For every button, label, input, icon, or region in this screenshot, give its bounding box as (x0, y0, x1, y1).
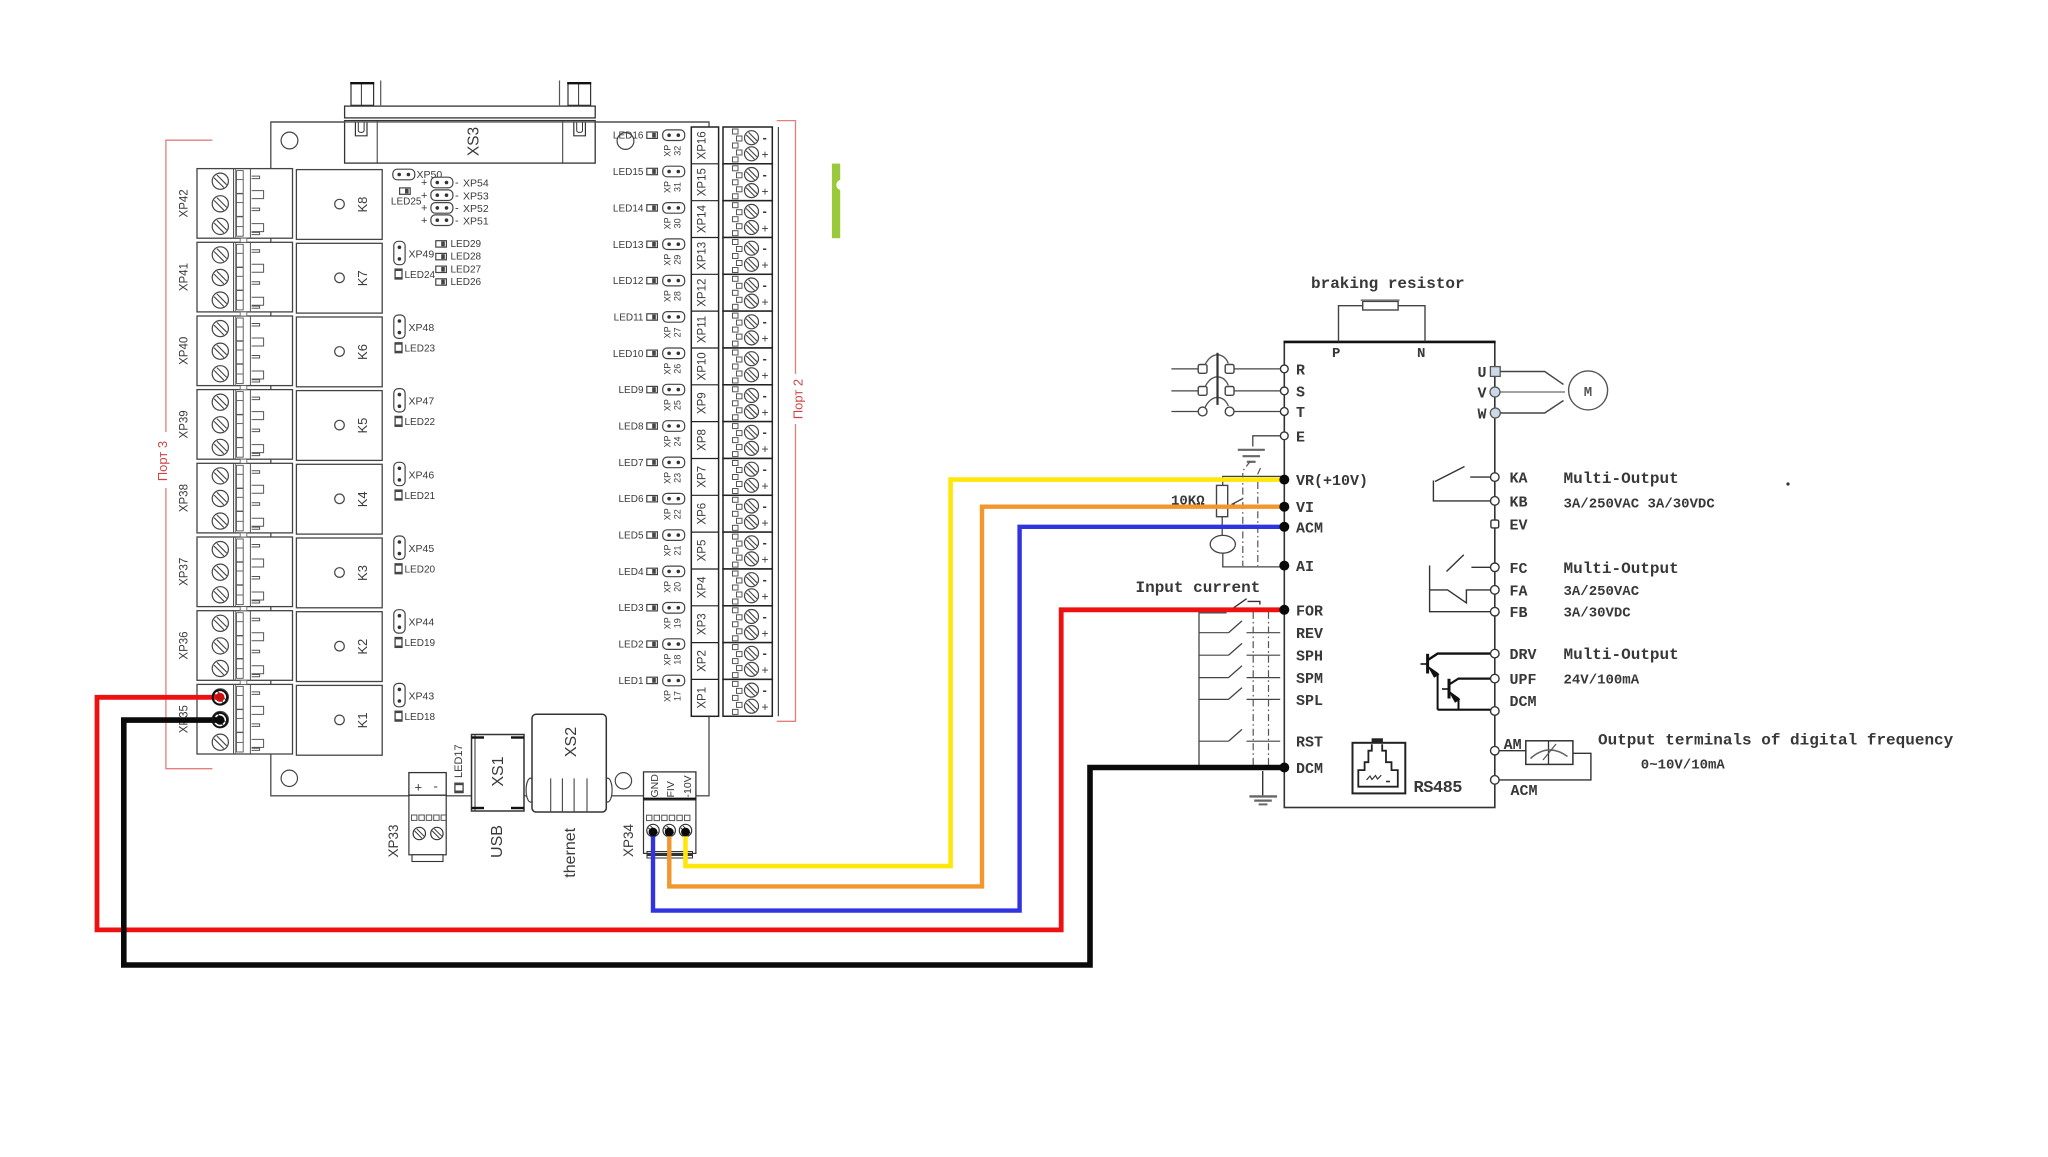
svg-text:N: N (1417, 346, 1425, 362)
terminal FB right (1491, 607, 1500, 616)
svg-text:27: 27 (673, 327, 683, 337)
svg-text:+: + (421, 203, 427, 215)
jumper XP51 (421, 215, 489, 228)
LED1 (618, 676, 657, 687)
svg-text:XP51: XP51 (463, 215, 489, 227)
svg-text:K1: K1 (355, 712, 370, 728)
comb bridge (240, 238, 247, 242)
svg-text:31: 31 (673, 182, 683, 192)
svg-text:XP: XP (663, 472, 673, 484)
svg-text:17: 17 (673, 691, 683, 701)
svg-text:XP45: XP45 (409, 543, 435, 555)
LED18 (395, 711, 435, 723)
svg-text:XP: XP (663, 581, 673, 593)
node FOR (1279, 605, 1289, 615)
terminal E (1280, 429, 1305, 446)
jumper XP53 (421, 190, 489, 203)
LED21 (395, 490, 435, 502)
svg-text:XP: XP (663, 290, 673, 302)
terminal V (1477, 386, 1500, 403)
svg-text:LED2: LED2 (618, 640, 643, 651)
svg-text:LED1: LED1 (618, 676, 643, 687)
mounting hole top-right (617, 133, 634, 150)
terminal DRV right (1491, 649, 1500, 658)
transistor output DRV (1421, 654, 1491, 710)
svg-text:18: 18 (673, 655, 683, 665)
terminal block XP37 (179, 537, 293, 607)
jumper XP30 (663, 203, 685, 230)
LED24 (395, 269, 435, 281)
svg-text:0~10V/10mA: 0~10V/10mA (1641, 758, 1726, 774)
svg-text:25: 25 (673, 400, 683, 410)
svg-text:-: - (455, 203, 459, 215)
svg-text:20: 20 (673, 582, 683, 592)
jumper XP18 (663, 639, 685, 666)
svg-text:RS485: RS485 (1414, 779, 1463, 798)
svg-text:DCM: DCM (1510, 694, 1537, 711)
svg-text:LED10: LED10 (613, 349, 644, 360)
switch SPL (1199, 688, 1280, 700)
output terminal block row XP1 (723, 679, 772, 716)
svg-text:XP39: XP39 (179, 410, 191, 438)
svg-text:DCM: DCM (1296, 761, 1323, 778)
LED16 (613, 131, 657, 142)
svg-text:LED16: LED16 (613, 131, 644, 142)
node AI (1279, 561, 1289, 571)
output terminal block row XP16 (723, 127, 772, 164)
terminal block XP36 (179, 611, 293, 681)
svg-text:XP47: XP47 (409, 396, 435, 408)
svg-text:22: 22 (673, 509, 683, 519)
svg-text:FC: FC (1510, 561, 1528, 578)
svg-text:M: M (1584, 385, 1592, 401)
jumper XP27 (663, 312, 685, 339)
svg-text:XP8: XP8 (697, 429, 709, 451)
terminal FC right (1491, 563, 1500, 572)
svg-text:KB: KB (1510, 494, 1528, 511)
jumper XP19 (663, 603, 685, 630)
connector XS2 Ethernet (526, 714, 612, 877)
LED20 (395, 564, 435, 576)
svg-text:XP1: XP1 (697, 687, 709, 709)
svg-text:+: + (415, 780, 423, 795)
svg-text:XP2: XP2 (697, 650, 709, 672)
braking resistor (1311, 275, 1465, 362)
comb bridge (240, 607, 247, 611)
LED28 (436, 252, 482, 263)
svg-text:XP48: XP48 (409, 322, 435, 334)
svg-text:DRV: DRV (1510, 647, 1537, 664)
svg-text:XP11: XP11 (697, 316, 709, 343)
svg-text:LED24: LED24 (405, 270, 436, 281)
terminal S (1280, 384, 1305, 401)
svg-text:USB: USB (489, 825, 506, 858)
svg-text:LED11: LED11 (614, 312, 644, 323)
XP16..XP1 connector label column (691, 127, 718, 716)
svg-text:XP10: XP10 (697, 352, 709, 380)
svg-text:3A/250VAC: 3A/250VAC (1564, 584, 1640, 600)
svg-text:XP41: XP41 (179, 263, 191, 291)
output terminal block row XP2 (723, 643, 772, 680)
wire orange FIV to VI (669, 507, 1281, 887)
output terminal block row XP3 (723, 606, 772, 643)
shield dash lines lower (1253, 612, 1268, 770)
svg-text:XP12: XP12 (697, 279, 709, 307)
LED27 (436, 264, 482, 275)
svg-text:XP16: XP16 (697, 131, 709, 159)
LED5 (618, 531, 657, 542)
svg-text:Порт 3: Порт 3 (155, 441, 170, 481)
relay contact FC/FA/FB (1430, 555, 1490, 612)
connector XS3 (345, 81, 596, 164)
svg-text:Порт 2: Порт 2 (791, 379, 806, 419)
svg-text:30: 30 (673, 218, 683, 228)
svg-text:XP53: XP53 (463, 190, 489, 202)
LED13 (613, 240, 657, 251)
node VR (1279, 475, 1289, 485)
svg-text:SPM: SPM (1296, 671, 1323, 688)
switch SPH (1199, 643, 1280, 655)
svg-text:Output terminals of digital fr: Output terminals of digital frequency (1598, 732, 1954, 750)
svg-text:29: 29 (673, 255, 683, 265)
terminal T (1280, 405, 1305, 422)
svg-text:XP49: XP49 (409, 248, 435, 260)
terminal U (1477, 365, 1500, 382)
wire black XP35 to DCM (124, 720, 1281, 965)
svg-text:XP: XP (663, 617, 673, 629)
svg-text:FA: FA (1510, 583, 1528, 600)
svg-text:XP5: XP5 (697, 540, 709, 562)
svg-text:LED19: LED19 (405, 638, 436, 649)
svg-text:K8: K8 (355, 197, 370, 213)
svg-text:VR(+10V): VR(+10V) (1296, 473, 1368, 490)
svg-text:LED14: LED14 (613, 203, 644, 214)
svg-text:LED23: LED23 (405, 344, 436, 355)
junction black at XP35 (213, 713, 227, 727)
LED7 (618, 458, 657, 469)
jumper XP29 (663, 239, 685, 266)
svg-text:LED20: LED20 (405, 565, 436, 576)
VFD main box (1284, 342, 1495, 808)
relay K1 (296, 685, 382, 755)
svg-text:XP33: XP33 (386, 824, 401, 857)
node ACM (1279, 522, 1289, 532)
jumper XP17 (663, 675, 685, 702)
svg-text:XS2: XS2 (563, 727, 580, 757)
svg-text:XS3: XS3 (466, 127, 483, 156)
output terminal block row XP14 (723, 201, 772, 238)
svg-text:LED26: LED26 (451, 277, 482, 288)
svg-text:RST: RST (1296, 735, 1323, 752)
terminal EV right (1491, 520, 1499, 528)
terminal DCM right (1491, 707, 1500, 716)
jumper XP48 (394, 315, 435, 338)
svg-text:ACM: ACM (1511, 783, 1538, 800)
svg-text:XP42: XP42 (179, 189, 191, 217)
junction red at XP35 (213, 690, 227, 704)
svg-text:V: V (1477, 386, 1486, 403)
LED10 (613, 349, 657, 360)
terminal XP33 (386, 773, 447, 862)
LED15 (613, 167, 657, 178)
wire blue GND to ACM (653, 527, 1281, 911)
switch bus (1199, 613, 1227, 768)
terminal block XP41 (179, 242, 293, 312)
svg-text:24: 24 (673, 436, 683, 446)
LED25 (391, 188, 422, 208)
svg-text:XP: XP (663, 363, 673, 375)
svg-text:XP: XP (663, 145, 673, 157)
svg-text:LED3: LED3 (618, 603, 643, 614)
terminal W (1477, 407, 1500, 424)
svg-text:XP36: XP36 (179, 631, 191, 659)
svg-text:E: E (1296, 429, 1305, 446)
svg-text:+: + (421, 177, 427, 189)
terminal KB right (1491, 497, 1500, 506)
motor M (1500, 371, 1607, 413)
jumper XP26 (663, 348, 685, 375)
jumper XP54 (421, 177, 489, 190)
svg-text:XP: XP (663, 654, 673, 666)
terminal block XP39 (179, 390, 293, 460)
svg-text:26: 26 (673, 364, 683, 374)
terminal AM right (1491, 746, 1500, 755)
jumper XP46 (394, 462, 435, 485)
svg-text:P: P (1332, 346, 1340, 362)
svg-text:XP43: XP43 (409, 690, 435, 702)
relay K3 (296, 538, 382, 608)
svg-text:+: + (421, 215, 427, 227)
svg-text:FIV: FIV (665, 781, 677, 797)
svg-text:K4: K4 (355, 491, 370, 507)
relay contact KA/KB (1433, 467, 1490, 501)
svg-text:T: T (1296, 405, 1305, 422)
LED29 (436, 239, 482, 250)
svg-text:XP7: XP7 (697, 466, 709, 488)
svg-text:XP: XP (663, 254, 673, 266)
LED9 (618, 385, 657, 396)
switch SPM (1199, 666, 1280, 678)
svg-text:LED17: LED17 (453, 744, 465, 778)
LED26 (436, 277, 482, 288)
svg-text:thernet: thernet (562, 827, 579, 877)
svg-text:XP37: XP37 (179, 558, 191, 586)
comb bridge (240, 680, 247, 684)
jumper XP47 (394, 389, 435, 412)
svg-text:-10V: -10V (682, 775, 694, 797)
output terminal block row XP6 (723, 495, 772, 532)
ground at E (1238, 436, 1280, 462)
LED8 (618, 422, 657, 433)
svg-text:K3: K3 (355, 565, 370, 581)
svg-text:23: 23 (673, 473, 683, 483)
comb bridge (240, 459, 247, 463)
svg-text:LED21: LED21 (405, 491, 436, 502)
svg-text:VI: VI (1296, 500, 1314, 517)
svg-text:-: - (455, 177, 459, 189)
svg-text:XP6: XP6 (697, 503, 709, 525)
output terminal block row XP15 (723, 164, 772, 201)
svg-text:LED18: LED18 (405, 712, 436, 723)
svg-text:32: 32 (673, 146, 683, 156)
terminal FA right (1491, 586, 1500, 595)
node DCM (1279, 763, 1289, 773)
jumper XP24 (663, 421, 685, 448)
svg-text:K7: K7 (355, 270, 370, 286)
terminal block XP35 (179, 684, 293, 754)
LED6 (618, 494, 657, 505)
jumper XP32 (663, 130, 685, 157)
svg-text:FOR: FOR (1296, 603, 1323, 620)
terminal XP34 (621, 772, 696, 858)
svg-text:LED15: LED15 (613, 167, 644, 178)
FOR switch (1233, 599, 1260, 608)
board top edge over XS3 (271, 121, 709, 123)
terminal block XP42 (179, 169, 293, 239)
svg-text:-: - (455, 215, 459, 227)
terminal UPF right (1491, 674, 1500, 683)
PCB main board outline (271, 122, 709, 796)
svg-text:+: + (421, 190, 427, 202)
output terminal block row XP9 (723, 385, 772, 422)
svg-text:19: 19 (673, 618, 683, 628)
svg-text:XP44: XP44 (409, 617, 435, 629)
relay K2 (296, 612, 382, 682)
relay K8 (296, 170, 382, 240)
jumper XP52 (421, 203, 489, 216)
svg-text:LED8: LED8 (618, 422, 643, 433)
svg-text:LED4: LED4 (618, 567, 643, 578)
svg-text:LED28: LED28 (451, 252, 482, 263)
jumper XP25 (663, 384, 685, 411)
svg-text:XP38: XP38 (179, 484, 191, 512)
switch RST (1199, 729, 1280, 741)
DCM output line (1438, 709, 1491, 711)
jumper XP20 (663, 566, 685, 593)
svg-text:XP9: XP9 (697, 392, 709, 414)
input contactor breaker (1171, 355, 1280, 374)
svg-text:LED13: LED13 (613, 240, 644, 251)
LED19 (395, 638, 435, 650)
svg-text:K5: K5 (355, 418, 370, 434)
svg-text:XP3: XP3 (697, 613, 709, 635)
output terminal block row XP12 (723, 274, 772, 311)
svg-text:XP4: XP4 (697, 576, 709, 598)
jumper XP49 (394, 241, 435, 264)
svg-text:LED6: LED6 (618, 494, 643, 505)
mounting hole top-left (281, 132, 298, 149)
svg-text:LED9: LED9 (618, 385, 643, 396)
mounting hole bottom-right (615, 773, 631, 789)
jumper XP44 (394, 610, 435, 633)
mounting hole bottom-left (281, 770, 297, 786)
svg-text:ACM: ACM (1296, 520, 1323, 537)
svg-text:XP: XP (663, 217, 673, 229)
svg-text:XP54: XP54 (463, 178, 489, 190)
frequency meter AM/ACM (1499, 741, 1591, 780)
comb bridge (240, 386, 247, 390)
comb bridge (240, 312, 247, 316)
svg-text:LED5: LED5 (618, 531, 643, 542)
RS485 connector (1353, 738, 1463, 798)
svg-text:XP34: XP34 (621, 823, 636, 857)
junction dots XP34 (649, 828, 658, 837)
svg-text:21: 21 (673, 545, 683, 555)
svg-text:K6: K6 (355, 344, 370, 360)
jumper XP23 (663, 457, 685, 484)
wire yellow +10V to VR (686, 480, 1282, 866)
svg-text:LED25: LED25 (391, 197, 422, 208)
svg-text:SPH: SPH (1296, 649, 1323, 666)
LED12 (613, 276, 657, 287)
svg-text:XP: XP (663, 399, 673, 411)
jumper XP21 (663, 530, 685, 557)
jumper XP50 (393, 169, 443, 181)
output terminal block row XP8 (723, 422, 772, 459)
connector XS1 USB (472, 735, 525, 858)
terminal KA right (1491, 473, 1500, 482)
svg-text:XS1: XS1 (490, 756, 507, 786)
svg-text:LED29: LED29 (451, 239, 482, 250)
output terminal block row XP7 (723, 459, 772, 496)
svg-text:28: 28 (673, 291, 683, 301)
svg-text:S: S (1296, 384, 1305, 401)
svg-text:LED7: LED7 (618, 458, 643, 469)
wire red XP35 to FOR (97, 610, 1281, 930)
LED4 (618, 567, 657, 578)
svg-text:Multi-Output: Multi-Output (1564, 560, 1679, 578)
LED14 (613, 203, 657, 214)
svg-text:R: R (1296, 362, 1305, 379)
svg-text:LED22: LED22 (405, 417, 436, 428)
svg-text:KA: KA (1510, 471, 1528, 488)
svg-text:K2: K2 (355, 639, 370, 655)
comb bridge (240, 533, 247, 537)
svg-text:SPL: SPL (1296, 693, 1323, 710)
node VI (1279, 502, 1289, 512)
LED22 (395, 416, 435, 428)
svg-text:EV: EV (1510, 518, 1528, 535)
terminal R (1280, 362, 1305, 379)
output terminal block row XP10 (723, 348, 772, 385)
shield dash lines upper (1243, 461, 1261, 566)
svg-text:XP14: XP14 (697, 204, 709, 233)
svg-text:LED12: LED12 (613, 276, 644, 287)
LED23 (395, 343, 435, 355)
switch REV (1199, 621, 1280, 633)
svg-text:AM: AM (1504, 737, 1522, 754)
jumper XP31 (663, 166, 685, 193)
svg-text:Multi-Output: Multi-Output (1564, 646, 1679, 664)
svg-text:Input current: Input current (1136, 579, 1261, 597)
terminal ACM right (1491, 776, 1500, 785)
svg-text:XP: XP (663, 326, 673, 338)
LED3 (618, 603, 657, 614)
terminal block XP40 (179, 316, 293, 386)
svg-text:LED27: LED27 (451, 264, 482, 275)
svg-text:braking resistor: braking resistor (1311, 275, 1465, 293)
green highlight mark (832, 164, 847, 239)
svg-text:24V/100mA: 24V/100mA (1564, 673, 1640, 689)
svg-text:UPF: UPF (1510, 672, 1537, 689)
ground below DCM (1249, 771, 1277, 804)
svg-text:W: W (1477, 407, 1486, 424)
svg-text:GND: GND (649, 774, 661, 798)
svg-text:XP46: XP46 (409, 469, 435, 481)
bracket port 2 (777, 121, 796, 722)
svg-text:XP: XP (663, 690, 673, 702)
svg-text:AI: AI (1296, 559, 1314, 576)
